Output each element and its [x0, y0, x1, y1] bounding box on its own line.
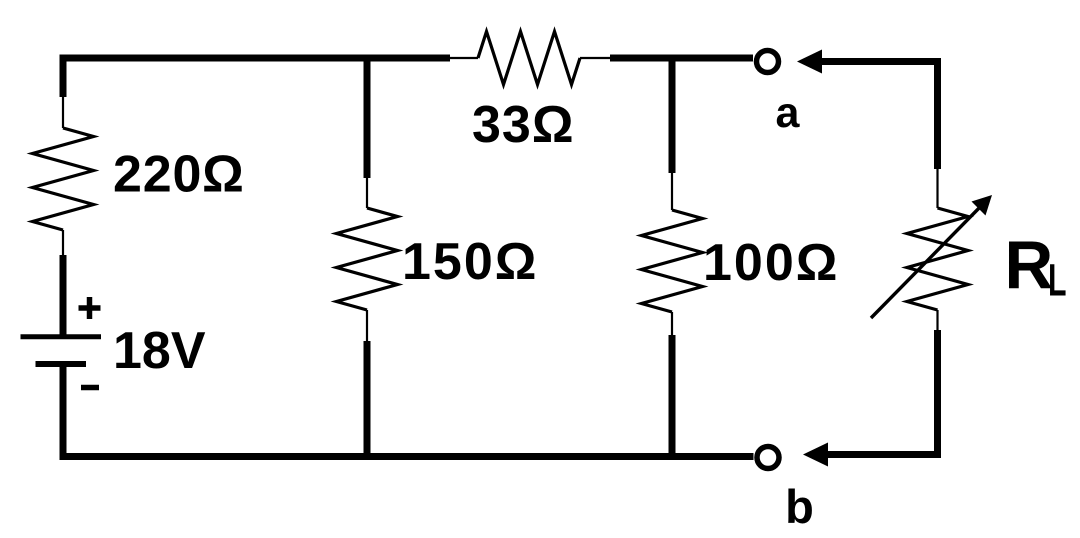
svg-text:a: a — [776, 89, 801, 137]
svg-text:L: L — [1048, 255, 1067, 306]
svg-text:R: R — [1005, 228, 1054, 303]
svg-text:b: b — [785, 480, 814, 533]
svg-text:18V: 18V — [113, 322, 206, 380]
svg-text:100Ω: 100Ω — [703, 234, 839, 292]
svg-text:33Ω: 33Ω — [472, 96, 575, 154]
svg-text:220Ω: 220Ω — [113, 146, 245, 204]
svg-text:150Ω: 150Ω — [402, 233, 538, 291]
